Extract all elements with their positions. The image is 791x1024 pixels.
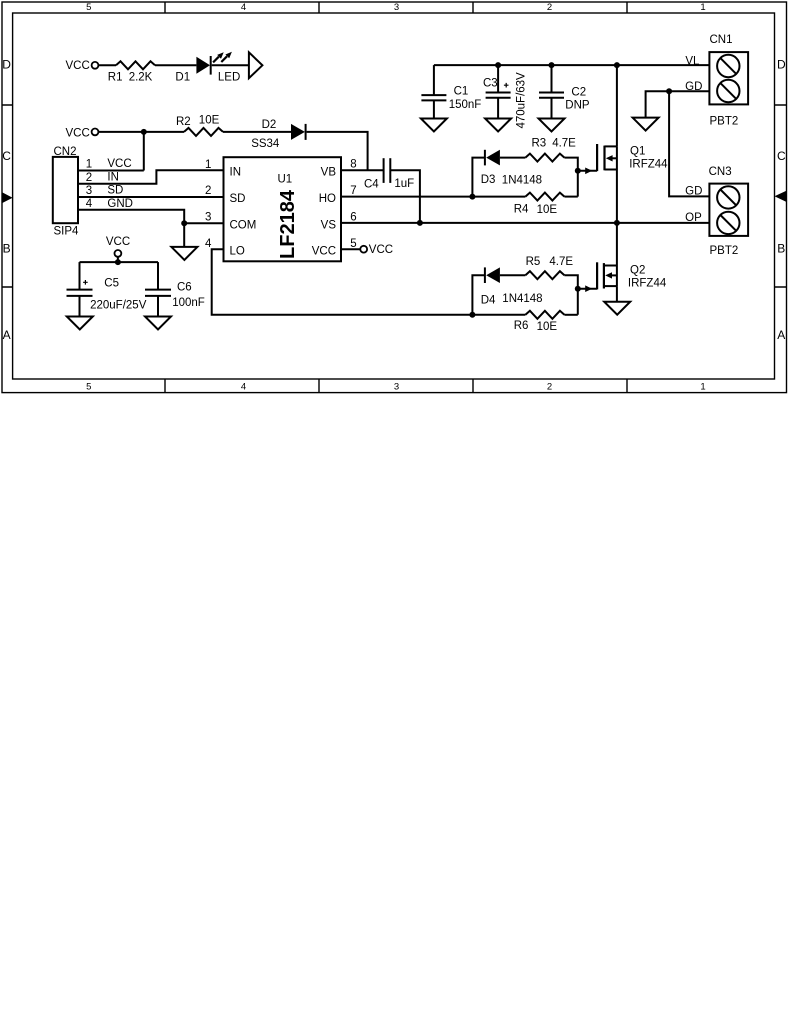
- junction rail / C3: [495, 62, 501, 68]
- wire COM node down to ground: [183, 223, 185, 247]
- svg-text:IRFZ44: IRFZ44: [628, 277, 667, 289]
- svg-text:VCC: VCC: [107, 158, 131, 170]
- wire R6 to right node: [564, 314, 577, 316]
- svg-text:VCC: VCC: [66, 128, 90, 140]
- wire D3 to R3: [500, 157, 526, 159]
- svg-text:1N4148: 1N4148: [502, 174, 542, 186]
- svg-text:IN: IN: [107, 171, 119, 183]
- svg-text:LO: LO: [230, 246, 245, 258]
- svg-text:VCC: VCC: [106, 236, 130, 248]
- wire C5 to ground: [79, 296, 81, 317]
- svg-text:5: 5: [86, 381, 91, 392]
- transistor Q1: [597, 144, 617, 171]
- wire C6 to ground: [157, 296, 159, 317]
- svg-text:VL: VL: [685, 55, 700, 67]
- svg-text:C6: C6: [177, 281, 192, 293]
- svg-text:1: 1: [700, 381, 705, 392]
- wire D1 to output marker: [212, 64, 249, 66]
- wire junction down to CN2 pin 1: [143, 132, 145, 171]
- svg-text:1uF: 1uF: [394, 178, 414, 190]
- svg-text:R5: R5: [526, 256, 541, 268]
- wire rail C5 to C6: [80, 261, 159, 263]
- svg-text:GD: GD: [685, 185, 702, 197]
- svg-text:1: 1: [700, 2, 705, 13]
- svg-text:2: 2: [205, 185, 211, 197]
- svg-text:220uF/25V: 220uF/25V: [90, 299, 147, 311]
- svg-text:D: D: [777, 58, 786, 72]
- svg-text:VS: VS: [321, 219, 337, 231]
- wire R2 to D2: [223, 131, 291, 133]
- svg-text:2: 2: [547, 2, 552, 13]
- svg-text:3: 3: [394, 2, 399, 13]
- wire R3 to right node: [564, 158, 577, 197]
- diode D3: [485, 150, 500, 166]
- connector CN1: [709, 52, 748, 104]
- svg-text:GND: GND: [107, 198, 133, 210]
- resistor R1: [116, 61, 155, 69]
- wire U1 pin7 HO to node: [341, 196, 472, 198]
- svg-text:470uF/63V: 470uF/63V: [515, 72, 527, 129]
- svg-text:D: D: [2, 58, 11, 72]
- capacitor C5 (polarized): [67, 280, 93, 296]
- svg-text:IRFZ44: IRFZ44: [629, 158, 668, 170]
- wire gate node to Q1 gate: [578, 168, 597, 175]
- svg-text:10E: 10E: [537, 321, 558, 333]
- svg-text:IN: IN: [230, 167, 242, 179]
- wire VL top rail: [434, 64, 710, 66]
- CN2 pin 2 wire (IN net): [78, 170, 224, 183]
- svg-text:3: 3: [86, 185, 92, 197]
- svg-text:R4: R4: [514, 203, 529, 215]
- wire R4 to right node: [564, 196, 577, 198]
- svg-text:CN1: CN1: [710, 34, 733, 46]
- svg-text:C: C: [2, 149, 11, 163]
- svg-text:C2: C2: [571, 86, 586, 98]
- svg-text:HO: HO: [319, 193, 336, 205]
- wire C4 to VS net: [390, 170, 420, 223]
- capacitor C6: [145, 290, 171, 296]
- ground symbol (C2): [539, 119, 565, 132]
- svg-text:SS34: SS34: [251, 138, 280, 150]
- output marker open arrow: [249, 52, 263, 78]
- svg-text:SD: SD: [107, 185, 123, 197]
- svg-text:VCC: VCC: [66, 60, 90, 72]
- junction VCC / C5 C6 rail: [115, 259, 121, 265]
- wire C1 to ground: [433, 100, 435, 118]
- wire Q2 source to ground: [616, 286, 618, 302]
- junction COM/GND node: [181, 220, 187, 226]
- svg-text:3: 3: [205, 212, 211, 224]
- svg-text:GD: GD: [685, 81, 702, 93]
- power symbol VCC (LED row): [66, 60, 99, 72]
- svg-text:C3: C3: [483, 77, 498, 89]
- LED D1: [196, 52, 232, 75]
- svg-text:D4: D4: [481, 294, 496, 306]
- resistor R6: [525, 311, 564, 319]
- svg-text:VCC: VCC: [369, 244, 393, 256]
- IC U1 body: [224, 157, 342, 261]
- svg-text:LF2184: LF2184: [277, 189, 299, 259]
- svg-text:SD: SD: [230, 193, 246, 205]
- svg-text:R6: R6: [514, 320, 529, 332]
- svg-text:4: 4: [86, 198, 93, 210]
- svg-text:4: 4: [205, 238, 212, 250]
- svg-text:4: 4: [241, 381, 246, 392]
- wire GD node to CN1 pin 2: [669, 90, 709, 92]
- svg-text:VB: VB: [321, 167, 337, 179]
- junction rail / C2: [549, 62, 555, 68]
- ground symbol (C5): [67, 317, 93, 330]
- svg-text:5: 5: [86, 2, 91, 13]
- capacitor C3 (polarized): [486, 83, 511, 98]
- power symbol VCC (R2 row): [66, 128, 99, 140]
- CN2 pin 1 wire (VCC net): [78, 170, 144, 172]
- svg-text:C4: C4: [364, 179, 379, 191]
- svg-text:CN2: CN2: [54, 146, 77, 158]
- ground symbol (C1): [421, 119, 447, 132]
- svg-text:10E: 10E: [537, 204, 558, 216]
- svg-text:D1: D1: [175, 71, 190, 83]
- ground symbol (Q2 source): [604, 302, 630, 315]
- svg-text:4.7E: 4.7E: [552, 138, 576, 150]
- svg-text:CN3: CN3: [709, 166, 732, 178]
- svg-text:A: A: [3, 328, 11, 342]
- svg-text:4.7E: 4.7E: [549, 256, 573, 268]
- wire rail down to C5: [79, 262, 81, 290]
- svg-text:150nF: 150nF: [449, 99, 482, 111]
- resistor R2: [184, 128, 223, 136]
- wire rail down to C3: [497, 65, 499, 92]
- wire Q1 drain to VL rail: [616, 65, 618, 146]
- ground symbol (C3): [485, 119, 511, 132]
- wire C2 to ground: [551, 98, 553, 119]
- svg-text:1N4148: 1N4148: [502, 293, 542, 305]
- wire Q2 drain to VS/OP net: [616, 223, 618, 266]
- svg-text:COM: COM: [230, 219, 257, 231]
- junction Q1 gate node: [575, 168, 581, 174]
- svg-text:PBT2: PBT2: [710, 245, 739, 257]
- junction GD node: [666, 88, 672, 94]
- wire R5 to right node: [564, 275, 577, 315]
- diode D2: [291, 124, 306, 140]
- svg-text:Q1: Q1: [630, 146, 645, 158]
- wire Q1 source to VS/OP net: [616, 170, 618, 223]
- junction C4 / VS: [417, 220, 423, 226]
- svg-text:2: 2: [547, 381, 552, 392]
- resistor R4: [525, 193, 564, 201]
- svg-text:100nF: 100nF: [172, 297, 205, 309]
- wire GD node down to CN3 pin 1: [669, 91, 709, 196]
- capacitor C4: [384, 158, 391, 183]
- connector CN2: [53, 157, 78, 223]
- junction rail / Q1 drain: [614, 62, 620, 68]
- svg-text:3: 3: [394, 381, 399, 392]
- svg-text:SIP4: SIP4: [54, 226, 80, 238]
- junction Q2 gate node: [575, 286, 581, 292]
- svg-text:U1: U1: [278, 174, 293, 186]
- svg-text:10E: 10E: [199, 114, 220, 126]
- wire rail down to C6: [157, 262, 159, 290]
- ground symbol (GD): [633, 118, 659, 131]
- svg-text:B: B: [3, 242, 11, 256]
- wire gate node to Q2 gate: [578, 285, 597, 292]
- wire COM node to U1 pin 3: [184, 222, 223, 224]
- resistor R5: [525, 271, 564, 279]
- wire rail down to C2: [551, 65, 553, 92]
- svg-text:D3: D3: [481, 174, 496, 186]
- wire VCC to R2: [98, 131, 184, 133]
- transistor Q2: [597, 262, 617, 289]
- svg-text:1: 1: [86, 158, 92, 170]
- svg-text:1: 1: [205, 159, 211, 171]
- svg-text:D2: D2: [262, 119, 277, 131]
- junction VCC / CN2 pin1: [141, 129, 147, 135]
- junction LO left node: [469, 312, 475, 318]
- svg-text:Q2: Q2: [630, 265, 645, 277]
- svg-text:2.2K: 2.2K: [129, 72, 153, 84]
- svg-text:PBT2: PBT2: [710, 115, 739, 127]
- wire rail down to C1: [433, 65, 435, 95]
- wire HO node up to D3 branch: [472, 158, 485, 197]
- svg-text:C5: C5: [104, 277, 119, 289]
- svg-text:R2: R2: [176, 116, 191, 128]
- svg-text:VCC: VCC: [312, 246, 336, 258]
- power symbol VCC (C5 C6): [106, 236, 130, 257]
- ground symbol (C6): [145, 317, 171, 330]
- svg-text:4: 4: [241, 2, 246, 13]
- wire C3 to ground: [497, 98, 499, 119]
- wire LO node up to D4 branch: [472, 275, 485, 315]
- wire GD node to ground: [646, 91, 670, 117]
- wire U1 pin5 to VCC: [341, 248, 360, 250]
- capacitor C1: [421, 95, 446, 100]
- wire LO node to R6: [472, 314, 525, 316]
- svg-text:LED: LED: [218, 71, 240, 83]
- svg-text:C1: C1: [454, 86, 469, 98]
- wire VCC down to C5 C6 rail: [117, 257, 119, 262]
- wire R1 to D1: [155, 64, 196, 66]
- junction VS / Q1 source / Q2 drain: [614, 220, 620, 226]
- svg-text:7: 7: [350, 185, 356, 197]
- CN2 pin 3 wire (SD net): [78, 196, 224, 198]
- svg-text:6: 6: [350, 212, 356, 224]
- wire U1 pin6 VS to CN3 pin 2 (OP net): [341, 222, 709, 224]
- svg-text:R1: R1: [108, 71, 123, 83]
- power symbol VCC (U1 pin5): [360, 244, 393, 256]
- CN2 pin 4 wire (GND net): [78, 210, 184, 224]
- svg-text:R3: R3: [532, 138, 547, 150]
- wire D2 to U1 pin8 VB: [307, 132, 368, 170]
- resistor R3: [525, 154, 564, 162]
- wire U1 pin4 LO down and right: [212, 249, 473, 315]
- svg-text:2: 2: [86, 172, 92, 184]
- diode D4: [485, 267, 500, 283]
- capacitor C2: [539, 93, 564, 98]
- ground symbol (COM): [171, 247, 197, 260]
- svg-text:5: 5: [350, 238, 356, 250]
- connector CN3: [709, 184, 748, 236]
- junction HO left node: [469, 194, 475, 200]
- svg-text:C: C: [777, 149, 786, 163]
- svg-text:DNP: DNP: [565, 100, 590, 112]
- wire D4 to R5: [500, 274, 526, 276]
- wire U1 pin8 VB to C4: [341, 169, 384, 171]
- svg-text:A: A: [777, 328, 785, 342]
- wire VCC to R1: [98, 64, 116, 66]
- wire HO node to R4: [472, 196, 525, 198]
- svg-text:B: B: [777, 242, 785, 256]
- svg-text:8: 8: [350, 159, 356, 171]
